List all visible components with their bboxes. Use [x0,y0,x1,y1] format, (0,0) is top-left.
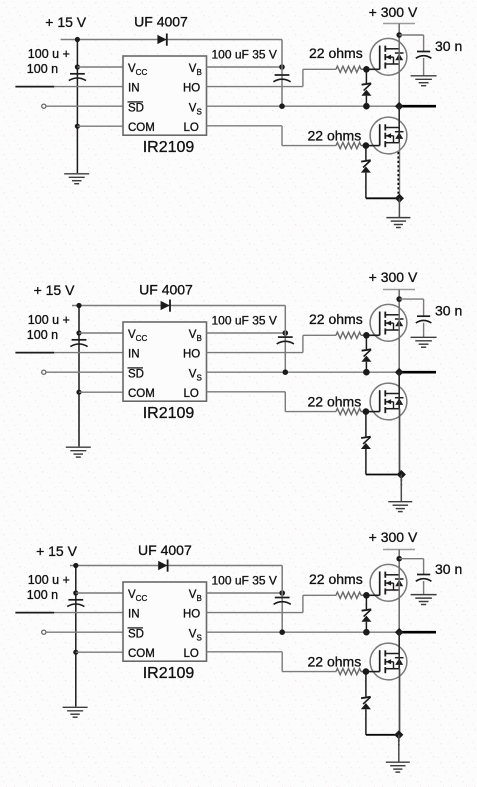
wire COM to left vertical [76,651,123,653]
op-amp U1 IR2109 gate driver box [123,322,207,401]
transistor Q2 low-side body diode [395,397,404,399]
ground left GND1 [64,173,89,175]
node Vs mid junction [279,103,285,109]
svg-text:IN: IN [128,83,140,95]
svg-text:100 uF 35 V: 100 uF 35 V [212,314,277,328]
transistor Q1 high-side body circle [370,564,407,601]
capacitor C1 100u+100n bypass [72,339,87,341]
wire LO to gate resistor R2 [285,411,336,413]
wire drain-source vertical upper FET [398,561,400,632]
capacitor C1 100u+100n bypass [70,73,85,75]
svg-text:100 uF 35 V: 100 uF 35 V [212,574,277,588]
wire Vs row thick output [399,105,436,108]
wire snubber cap to ground [423,58,425,76]
diode D1 UF4007 on rail [161,301,170,310]
capacitor C3 snubber 30n [417,315,430,317]
wire junction to ground [400,475,402,502]
transistor Q2 low-side drain tap [385,653,399,655]
wire source of Q2 down [399,409,401,475]
wire LO drop [281,126,283,146]
wire +15V rail [72,305,285,307]
wire Vs pin to source node [207,105,400,107]
wire SD to IC [46,371,123,373]
node COM junction [75,124,80,129]
wire junction to ground [398,735,400,762]
node Vs mid junction [283,369,289,375]
svg-text:COM: COM [128,388,155,400]
wire +300V down [398,290,400,302]
svg-text:SD: SD [128,102,144,114]
wire zener Z2 down [365,173,367,199]
resistor R2 22 ohms gate [336,143,361,149]
transistor Q1 high-side body circle [370,38,407,75]
node: rail to bypass cap junction [75,37,80,42]
node zener Z1 bottom junction [363,369,370,376]
ground snubber GND2 [411,336,437,338]
wire Vcc to IC [77,66,123,68]
node upper gate junction [363,66,370,73]
wire Vs pin to source node [207,371,400,373]
transistor Q2 low-side source tap [385,668,399,670]
wire gate node down to zener Z1 [365,595,367,609]
wire HO pin right [207,612,303,614]
node COM junction [73,650,78,655]
svg-text:SD: SD [128,368,144,380]
wire +300V down [398,24,400,36]
resistor R1 22 ohms gate [336,592,361,598]
wire Vs pin to source node [207,631,400,633]
wire COM to left vertical [79,391,123,393]
wire drain-source vertical upper FET [398,301,400,372]
wire drain-source vertical upper FET [398,35,400,106]
transistor Q1 high-side body diode [395,318,404,320]
transistor Q1 high-side channel segments [384,46,386,52]
diode D1 UF4007 on rail [158,561,167,570]
transistor Q2 low-side drain tap [385,127,399,129]
terminal SD open circle [42,630,46,634]
wire resistor to gate node [361,68,366,70]
node VB junction [279,64,285,70]
wire to snubber cap 30n [399,298,423,300]
wire drain vertical lower FET [398,106,400,143]
wire Vs row thick output [399,631,436,634]
svg-text:LO: LO [184,122,199,134]
node COM junction [76,390,81,395]
transistor Q1 high-side body diode [395,578,404,580]
node Vcc junction [73,590,78,595]
node bottom source junction [397,470,406,479]
svg-text:100 n: 100 n [27,328,58,342]
wire +15V rail [61,39,283,41]
svg-text:+ 15 V: + 15 V [34,282,76,298]
transistor Q2 low-side body tap with substrate arrow [385,401,393,403]
node lower gate junction [363,408,370,415]
wire LO pin right [207,651,283,653]
wire HO riser [302,335,304,352]
svg-text:HO: HO [183,609,200,621]
zener diode Z1 upper gate protection [362,609,372,610]
transistor Q2 low-side body circle [370,117,407,154]
resistor R1 22 ohms gate [336,332,361,338]
svg-text:100 u +: 100 u + [28,47,70,61]
wire SD to IC [46,105,123,107]
op-amp U1 IR2109 gate driver box [123,582,207,661]
transistor Q1 high-side source tap [385,63,399,65]
resistor R2 22 ohms gate [336,409,361,415]
transistor Q1 high-side body tap with substrate arrow [385,56,393,58]
wire left vertical cap string [75,566,77,707]
wire VB pin to mid vertical [207,66,283,68]
wire left vertical cap string [78,306,80,447]
wire IN to IC [54,86,123,88]
transistor Q1 high-side channel segments [384,572,386,578]
diode D1 UF4007 on rail [157,35,166,44]
wire zener Z2 down [365,709,367,735]
wire gate node down to zener Z1 [365,335,367,349]
svg-text:30 n: 30 n [435,561,462,577]
capacitor C1 100u+100n bypass [68,599,83,601]
terminal +300V bar [383,23,415,25]
transistor Q2 low-side body tap with substrate arrow [385,661,393,663]
terminal SD open circle [42,104,46,108]
transistor Q2 low-side body diode [395,657,404,659]
svg-text:22 ohms: 22 ohms [309,571,363,587]
zener diode Z1 upper gate protection [362,83,372,84]
transistor Q2 low-side channel segments [384,650,386,656]
wire COM to left vertical [77,125,123,127]
wire source of Q2 down [399,669,401,735]
transistor Q1 high-side gate wire and gate bar [366,594,379,596]
wire resistor R2 to gate node [361,145,366,147]
wire Vcc to IC [76,592,123,594]
svg-text:SD: SD [128,628,144,640]
capacitor C2 bootstrap 100uF 35V [275,74,290,76]
svg-text:IN: IN [128,609,140,621]
wire zener Z2 to source junction [366,474,401,476]
svg-text:IN: IN [128,349,140,361]
transistor Q1 high-side channel segments [384,312,386,318]
node source of Q1 junction [395,368,404,377]
wire snubber cap drop [423,35,425,52]
ground right GND3 [388,501,412,503]
node upper gate junction [363,592,370,599]
node bottom source junction [394,730,403,739]
zener diode Z2 lower gate protection [361,697,371,698]
node bottom source junction [395,194,404,203]
capacitor C2 bootstrap 100uF 35V [278,336,293,338]
wire LO drop [284,392,286,412]
wire drain vertical lower FET [398,372,400,409]
node lower gate junction [363,142,370,149]
wire VB pin to mid vertical [207,592,283,594]
transistor Q1 high-side gate wire and gate bar [366,334,379,336]
capacitor C2 bootstrap 100uF 35V [275,597,290,599]
wire +300V down [398,550,400,562]
transistor Q2 low-side gate wire and gate bar [366,145,380,147]
wire HO to gate resistor [303,68,336,70]
transistor Q2 low-side body circle [370,383,407,420]
wire HO pin right [207,352,303,354]
node zener Z1 bottom junction [363,629,370,636]
transistor Q2 low-side source tap [385,408,399,410]
transistor Q1 high-side source tap [385,589,399,591]
capacitor C3 snubber 30n [417,51,430,53]
wire IN to IC [54,352,123,354]
transistor Q2 low-side body circle [370,643,407,680]
transistor Q1 high-side source tap [385,329,399,331]
svg-text:LO: LO [184,388,199,400]
transistor Q2 low-side source tap [385,142,399,144]
wire source of Q2 down [399,143,401,199]
wire gate node down to zener Z2 [365,672,367,697]
wire SD to IC [46,631,123,633]
transistor Q2 low-side gate wire and gate bar [366,671,380,673]
svg-text:IR2109: IR2109 [143,665,195,682]
wire LO pin right [207,391,286,393]
wire snubber cap to ground [423,581,425,595]
svg-text:COM: COM [128,122,155,134]
svg-text:+ 15 V: + 15 V [36,543,78,559]
terminal SD open circle [42,370,46,374]
wire HO to gate resistor [303,334,336,336]
node Vs mid junction [279,629,285,635]
resistor R1 22 ohms gate [336,66,361,72]
zener diode Z2 lower gate protection [361,160,371,161]
svg-text:22 ohms: 22 ohms [309,311,363,327]
svg-text:HO: HO [183,349,200,361]
ground right GND3 [386,761,410,763]
wire zener Z2 to source junction [366,734,399,736]
wire junction to ground [398,198,400,217]
node lower gate junction [363,668,370,675]
capacitor C3 snubber 30n [417,574,430,576]
svg-text:+ 300 V: + 300 V [369,4,418,20]
node Vcc junction [76,330,81,335]
wire zener Z2 down [365,449,367,475]
node upper gate junction [363,332,370,339]
node source of Q1 junction [395,628,404,637]
svg-text:HO: HO [183,83,200,95]
transistor Q2 low-side body diode [395,131,404,133]
wire left vertical cap string [76,40,78,174]
ground left GND1 [66,446,91,448]
terminal +300V bar [383,549,415,551]
transistor Q1 high-side drain tap [385,48,399,50]
wire drain vertical lower FET [398,632,400,669]
svg-text:LO: LO [184,648,199,660]
wire resistor to gate node [361,594,366,596]
wire HO riser [302,595,304,612]
wire zener Z1 to Vs row [365,362,367,373]
node +300V junction [396,296,402,302]
svg-text:UF 4007: UF 4007 [139,281,193,297]
wire resistor to gate node [361,334,366,336]
wire resistor R2 to gate node [361,671,366,673]
node +300V junction [396,556,402,562]
wire snubber cap drop [423,559,425,575]
wire IN input stub black [15,612,54,614]
wire zener Z1 to Vs row [365,96,367,107]
wire LO pin right [207,125,283,127]
transistor Q2 low-side gate wire and gate bar [366,411,380,413]
svg-text:100 n: 100 n [27,588,58,602]
transistor Q2 low-side drain tap [385,393,399,395]
svg-text:COM: COM [128,648,155,660]
wire Vcc to IC [79,332,123,334]
transistor Q1 high-side body tap with substrate arrow [385,322,393,324]
transistor Q2 low-side channel segments [384,124,386,130]
wire VB pin to mid vertical [207,332,286,334]
wire snubber cap to ground [423,323,425,338]
svg-text:22 ohms: 22 ohms [308,654,362,670]
transistor Q1 high-side drain tap [385,574,399,576]
svg-text:30 n: 30 n [435,38,462,54]
wire HO riser [302,69,304,86]
svg-text:IR2109: IR2109 [143,139,195,156]
wire Vs row thick output [399,371,436,374]
node zener Z1 bottom junction [363,103,370,110]
wire mid vertical from rail to Vs row [281,566,283,633]
zener diode Z1 upper gate protection [362,349,372,350]
ground snubber GND2 [411,75,437,77]
wire HO to gate resistor [303,594,336,596]
node Vcc junction [75,64,80,69]
svg-text:IR2109: IR2109 [143,405,195,422]
svg-text:100 u +: 100 u + [28,573,70,587]
transistor Q1 high-side body circle [370,304,407,341]
svg-text:100 u +: 100 u + [28,313,70,327]
ground snubber GND2 [411,594,437,596]
wire zener Z1 to Vs row [365,622,367,633]
ground right GND3 [386,217,410,219]
wire to snubber cap 30n [399,558,423,560]
wire resistor R2 to gate node [361,411,366,413]
wire snubber cap drop [423,299,425,316]
wire IN to IC [54,612,123,614]
wire IN input stub black [15,352,54,354]
wire zener Z2 to source junction [366,197,400,199]
zener diode Z2 lower gate protection [361,437,371,438]
op-amp U1 IR2109 gate driver box [123,56,207,135]
wire LO to gate resistor R2 [282,145,336,147]
svg-text:100 uF 35 V: 100 uF 35 V [212,48,277,62]
ground left GND1 [63,706,88,708]
resistor R2 22 ohms gate [336,669,361,675]
svg-text:30 n: 30 n [435,303,462,319]
svg-text:UF 4007: UF 4007 [138,542,192,558]
svg-text:+ 15 V: + 15 V [45,14,87,30]
wire gate node down to zener Z2 [365,412,367,437]
node VB junction [279,590,285,596]
wire HO pin right [207,86,303,88]
transistor Q2 low-side body tap with substrate arrow [385,135,393,137]
node +300V junction [396,32,402,38]
wire +15V rail [70,565,282,567]
svg-text:22 ohms: 22 ohms [309,45,363,61]
transistor Q1 high-side body diode [395,52,404,54]
transistor Q1 high-side body tap with substrate arrow [385,582,393,584]
wire gate node down to zener Z1 [365,69,367,83]
svg-text:22 ohms: 22 ohms [308,394,362,410]
wire gate node down to zener Z2 [365,146,367,161]
node: rail to bypass cap junction [73,563,78,568]
wire LO drop [281,652,283,672]
svg-text:UF 4007: UF 4007 [134,13,188,29]
svg-text:+ 300 V: + 300 V [369,529,418,545]
wire mid vertical from rail to Vs row [281,40,283,107]
wire LO to gate resistor R2 [282,671,336,673]
transistor Q1 high-side drain tap [385,314,399,316]
node source of Q1 junction [395,102,404,111]
transistor Q2 low-side channel segments [384,390,386,396]
wire to snubber cap 30n [399,34,423,36]
terminal +300V bar [383,289,415,291]
node VB junction [283,330,289,336]
wire mid vertical from rail to Vs row [284,306,286,373]
wire IN input stub black [15,86,54,88]
svg-text:22 ohms: 22 ohms [308,128,362,144]
transistor Q1 high-side gate wire and gate bar [366,68,379,70]
svg-text:100 n: 100 n [27,62,58,76]
svg-text:+ 300 V: + 300 V [369,269,418,285]
node: rail to bypass cap junction [76,303,81,308]
